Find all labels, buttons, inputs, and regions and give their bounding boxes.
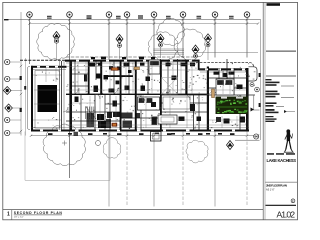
bottom wall — [31, 130, 249, 132]
left facade offset outline — [28, 67, 31, 130]
interior vertical wall at 70 — [70, 61, 72, 130]
detail marker circle bottom-right — [254, 134, 259, 139]
left dimension ticks and texts — [20, 65, 22, 132]
title block left double line — [263, 2, 265, 219]
tree T2 canopy lobe b — [174, 29, 206, 60]
bottom dimension line — [31, 135, 258, 137]
bottom dimension ticks — [30, 135, 259, 137]
firm name bar — [267, 3, 281, 6]
room fixtures left of bath — [151, 102, 221, 124]
green roof terrace — [216, 97, 249, 115]
grid bubble E — [151, 12, 157, 18]
rounded bay protrusion NE — [249, 67, 258, 81]
fine CAD speck noise — [34, 63, 256, 129]
grid bubble B — [67, 12, 73, 18]
thick interior walls — [185, 61, 187, 95]
top dimension line 1 — [5, 18, 261, 20]
left dimension line 1 — [20, 12, 22, 136]
left marker circle 0 — [5, 59, 21, 64]
open-to-below X room — [162, 78, 178, 95]
tree T4 bottom-center — [186, 140, 208, 163]
center roof edge line — [66, 56, 197, 58]
footer sheet number 1 — [7, 212, 10, 218]
bathtub rect room — [158, 115, 177, 124]
grid line H — [246, 18, 248, 206]
gray divider 2 — [266, 75, 296, 77]
grid bubble A — [27, 12, 33, 18]
grid line B — [69, 18, 71, 178]
thin interior gray lines — [33, 60, 246, 128]
fireplace orange 1 — [111, 67, 119, 70]
window tag diamond W6 bottom — [227, 141, 234, 150]
grid line A — [29, 18, 31, 64]
tree T3 bottom-left — [43, 124, 85, 166]
window gaps on walls — [37, 60, 245, 71]
terrace outline below left wing — [25, 132, 110, 181]
grid line C — [108, 18, 110, 206]
window tag diamond W3 — [157, 34, 164, 58]
grid line G — [214, 18, 216, 206]
svg-text:2ND FLOOR PLAN: 2ND FLOOR PLAN — [266, 184, 288, 188]
interior corridor wall — [66, 94, 208, 95]
svg-text:1: 1 — [7, 212, 10, 218]
window tag diamond W2 — [116, 35, 123, 60]
door tag circle 1 — [250, 83, 254, 87]
footer title SECOND FLOOR PLAN — [14, 211, 63, 219]
building walls — [31, 60, 260, 132]
grid bubble C — [106, 12, 112, 18]
door tag circle 2 — [255, 87, 260, 92]
revision row 2 — [266, 91, 295, 98]
svg-text:LAKE KACHESS: LAKE KACHESS — [267, 158, 297, 163]
sheet number A1.02 — [277, 210, 296, 220]
revision row 1 — [266, 79, 295, 86]
door arrow right — [251, 108, 255, 112]
stair steps — [86, 107, 97, 120]
top wall right wing — [199, 68, 249, 70]
svg-text:A1.02: A1.02 — [277, 210, 296, 220]
left marker circle 3 — [5, 130, 22, 135]
interior vertical wall at 207 — [207, 67, 209, 131]
right dimension line — [260, 19, 262, 140]
top dimension texts — [4, 15, 234, 20]
left outer wall — [31, 66, 33, 132]
tan cabinet top — [134, 67, 140, 70]
dense dark kitchen band — [87, 112, 158, 128]
grid bubble F — [180, 12, 186, 18]
small marker circle bottom-center — [96, 141, 101, 146]
left marker circle 1 — [5, 76, 22, 81]
window tag diamond W5 — [205, 34, 212, 60]
roof overhang line right — [195, 52, 258, 54]
interior partitions — [62, 59, 256, 130]
window tag diamond W1 — [53, 32, 60, 61]
tree T1 top-left — [37, 23, 75, 59]
svg-text:c: c — [292, 199, 294, 203]
svg-text:AS 1'-0": AS 1'-0" — [266, 188, 275, 191]
deck hatch between E and F — [153, 49, 184, 54]
fireplace orange 2 — [112, 123, 118, 127]
top wall center — [65, 60, 199, 62]
grid line E — [153, 18, 155, 206]
stair black mass — [38, 85, 58, 112]
roof edge dashed left extension — [20, 59, 66, 61]
grid line D — [126, 18, 128, 206]
svg-text:SECOND FLOOR PLAN: SECOND FLOOR PLAN — [14, 211, 63, 215]
balcony bump below bottom wall — [151, 132, 162, 142]
project name — [267, 158, 297, 163]
grid bubble H — [244, 12, 250, 18]
tan floor strip — [212, 89, 215, 98]
garage interior lines — [35, 61, 64, 130]
tree T5 bottom-small — [103, 138, 121, 159]
project info text — [266, 116, 277, 122]
footer divider line — [3, 210, 263, 220]
gray divider 1 — [266, 50, 296, 52]
roof overhang dashed with corner — [196, 63, 254, 68]
thick divider above sheet number — [266, 204, 297, 206]
interior wall partitions — [66, 61, 248, 130]
grid bubble G — [212, 12, 218, 18]
right dim text blobs — [259, 73, 261, 107]
left dimension line 2 — [25, 58, 27, 136]
logo walking figure — [284, 130, 294, 152]
grid line F — [182, 18, 184, 206]
central wall segment — [91, 57, 155, 79]
top wall left wing — [31, 66, 67, 68]
left window tag diamond 2 — [5, 104, 22, 112]
extra bottom dim text blobs — [68, 133, 222, 135]
sheet title — [266, 184, 288, 192]
bottom wall window gaps — [40, 130, 235, 132]
left window tag diamond 1 — [3, 87, 22, 95]
window tag diamond W4 — [192, 45, 199, 58]
left marker circle 2 — [5, 117, 22, 122]
gray divider 3 — [265, 181, 297, 183]
dimension ticks on top lines — [28, 18, 259, 25]
revision row 3 — [266, 102, 296, 113]
door step below wall — [74, 132, 79, 136]
right outer wall — [246, 68, 249, 132]
svg-text:1/4" = 1'-0": 1/4" = 1'-0" — [14, 216, 24, 218]
grid bubble D — [124, 12, 130, 18]
wet core dark fixtures — [75, 63, 246, 124]
tree T2 canopy lobe c — [157, 18, 185, 45]
door swing arcs — [63, 88, 241, 112]
tree T2 canopy lobe a — [148, 32, 178, 61]
window sill lines — [33, 63, 246, 72]
copyright circle — [291, 199, 295, 203]
beds and furniture right wing — [138, 60, 235, 110]
top dimension line 2 — [30, 23, 259, 25]
address line — [267, 153, 295, 155]
leader line bottom right — [235, 139, 260, 141]
step wall at x199 — [198, 60, 200, 71]
